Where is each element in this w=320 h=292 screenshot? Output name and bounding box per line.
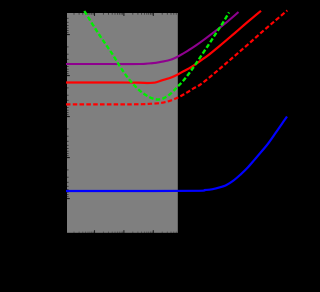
purple curve [66,12,239,64]
green dashed curve [84,11,229,100]
red dashed curve [66,10,287,104]
axis tick marks [67,13,177,233]
blue curve [66,117,287,192]
gray shaded band (axvspan) [67,13,178,233]
red solid curve [66,11,261,83]
